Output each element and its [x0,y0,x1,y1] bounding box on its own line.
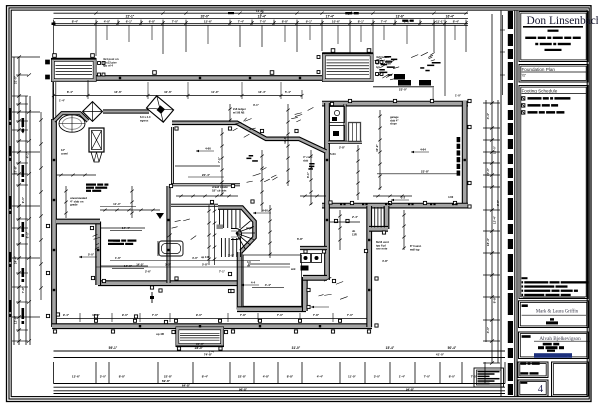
svg-text:12'-6": 12'-6" [14,315,18,324]
svg-text:11'-0": 11'-0" [211,90,219,94]
svg-text:2'-4": 2'-4" [352,215,359,219]
svg-text:8'-4": 8'-4" [72,20,79,24]
svg-text:7'-4": 7'-4" [238,20,245,24]
svg-text:50'-4": 50'-4" [448,346,457,350]
svg-text:8'-0": 8'-0" [449,374,456,378]
svg-text:9'-0": 9'-0" [122,313,129,317]
svg-text:7'-0": 7'-0" [347,313,354,317]
svg-text:18" clr min: 18" clr min [212,188,227,192]
svg-text:14'-0": 14'-0" [136,263,144,267]
svg-text:4: 4 [538,383,544,395]
svg-text:Foundation Plan: Foundation Plan [522,67,556,72]
svg-text:11'-0": 11'-0" [283,136,287,144]
svg-text:4'-4": 4'-4" [265,283,272,287]
svg-text:slope: slope [390,122,397,126]
svg-text:w/d: w/d [291,267,296,271]
svg-text:3'-2": 3'-2" [165,263,172,267]
svg-text:4'-8": 4'-8" [263,374,270,378]
svg-text:7'-8": 7'-8" [313,313,320,317]
svg-text:7'-8": 7'-8" [21,286,25,293]
svg-text:59'-1": 59'-1" [109,346,118,350]
svg-text:10'-0": 10'-0" [493,145,497,154]
svg-text:41'-0": 41'-0" [436,352,445,356]
svg-text:94'-8": 94'-8" [406,387,415,391]
svg-text:13'-6": 13'-6" [114,90,122,94]
svg-text:2'-6": 2'-6" [145,270,152,274]
svg-text:23'-0": 23'-0" [399,88,408,92]
svg-text:6'-0": 6'-0" [26,231,30,238]
svg-text:typ of 4: typ of 4 [103,64,113,68]
svg-text:10'-0": 10'-0" [486,167,490,176]
svg-text:13'-6": 13'-6" [396,15,405,19]
svg-text:w/ 5/8 AB: w/ 5/8 AB [233,110,245,114]
svg-text:13'-4": 13'-4" [258,15,267,19]
svg-text:6'-8": 6'-8" [297,237,304,241]
svg-text:7'-1": 7'-1" [219,270,226,274]
svg-text:5-64: 5-64 [330,152,336,156]
svg-text:16'-4": 16'-4" [486,237,490,246]
svg-text:7'-4": 7'-4" [209,350,216,354]
svg-text:4'-4": 4'-4" [317,374,324,378]
svg-text:lower: lower [113,239,120,243]
svg-text:22'-8": 22'-8" [164,374,173,378]
svg-text:see note: see note [376,247,388,251]
svg-text:8'-8": 8'-8" [287,374,294,378]
svg-text:Mark & Laura Griffin: Mark & Laura Griffin [536,310,579,315]
svg-text:2'-8": 2'-8" [339,146,346,150]
svg-text:4'-8": 4'-8" [382,259,389,263]
svg-text:9'-4": 9'-4" [63,313,70,317]
svg-text:7'-1": 7'-1" [217,156,221,163]
svg-text:96'-8": 96'-8" [239,387,248,391]
svg-text:dn: dn [247,263,251,267]
svg-text:23'-8": 23'-8" [421,169,430,173]
svg-text:10'-6": 10'-6" [332,20,341,24]
svg-text:4-60: 4-60 [262,209,268,213]
svg-text:4'-1": 4'-1" [26,151,30,158]
svg-text:4-60: 4-60 [448,195,454,199]
svg-text:1'-0": 1'-0" [455,94,462,98]
svg-text:1'-6": 1'-6" [115,256,122,260]
svg-text:up 4R: up 4R [156,332,164,336]
svg-text:24'-4": 24'-4" [14,255,18,264]
svg-text:8'-8": 8'-8" [119,374,126,378]
svg-text:3'-1": 3'-1" [253,103,260,107]
svg-text:12'-4": 12'-4" [493,215,497,224]
svg-text:4'-4": 4'-4" [486,112,490,119]
svg-text:9'-0": 9'-0" [21,196,25,203]
svg-text:Don Linsenbach: Don Linsenbach [527,15,598,27]
svg-text:5'-8": 5'-8" [202,263,209,267]
svg-text:3'-0": 3'-0" [496,199,500,206]
svg-text:8'-4": 8'-4" [453,20,460,24]
svg-text:7'-4": 7'-4" [381,20,388,24]
svg-text:13'-6": 13'-6" [72,374,81,378]
svg-text:4'-0": 4'-0" [486,326,490,333]
svg-text:6'-8": 6'-8" [149,20,156,24]
svg-text:¼": ¼" [522,74,527,78]
svg-text:22'-1": 22'-1" [126,15,135,19]
svg-text:8'-4": 8'-4" [202,374,209,378]
svg-text:16'-4": 16'-4" [446,15,455,19]
svg-text:7'-8": 7'-8" [240,313,247,317]
svg-text:7'-0": 7'-0" [172,20,179,24]
svg-text:1'-4": 1'-4" [399,374,406,378]
svg-text:8'-8": 8'-8" [282,20,289,24]
svg-text:17'-4": 17'-4" [326,15,335,19]
svg-text:31'-0": 31'-0" [14,75,18,84]
svg-text:11'-1": 11'-1" [436,20,445,24]
svg-text:4'-0": 4'-0" [192,256,199,260]
svg-text:9'-0": 9'-0" [196,313,203,317]
svg-text:9'-8": 9'-8" [493,296,497,303]
svg-text:typ: typ [376,65,380,69]
svg-text:6'-1": 6'-1" [126,20,133,24]
svg-text:Footing Schedule: Footing Schedule [522,88,558,93]
svg-text:11'-4": 11'-4" [113,202,121,206]
svg-text:7'-0": 7'-0" [277,313,284,317]
svg-text:3'-0": 3'-0" [374,374,381,378]
svg-text:20'-0": 20'-0" [201,15,210,19]
svg-text:20'-4": 20'-4" [202,173,211,177]
svg-text:4-4: 4-4 [251,281,256,285]
svg-text:wall typ: wall typ [410,247,420,251]
svg-text:crawl: crawl [61,151,68,155]
svg-text:13R: 13R [352,232,357,236]
svg-text:64'-8": 64'-8" [182,384,191,388]
svg-text:6'-1": 6'-1" [306,171,310,178]
svg-text:slab: slab [303,158,309,162]
svg-text:4-60: 4-60 [205,147,211,151]
svg-text:7'-0": 7'-0" [152,313,159,317]
svg-text:5'-4": 5'-4" [285,90,292,94]
svg-text:up 14R: up 14R [201,255,210,259]
svg-text:27'-8": 27'-8" [14,165,18,174]
svg-text:grade: grade [70,203,78,207]
svg-text:5'-0": 5'-0" [88,253,95,257]
svg-text:31'-0": 31'-0" [292,346,301,350]
svg-text:13'-4": 13'-4" [258,90,266,94]
svg-text:3'-0": 3'-0" [228,254,235,258]
svg-text:10'-6": 10'-6" [164,90,172,94]
svg-text:11'-0": 11'-0" [348,374,357,378]
svg-text:1'-4": 1'-4" [59,99,66,103]
svg-text:egress: egress [140,118,149,122]
svg-text:15'-6": 15'-6" [204,20,213,24]
svg-text:72'-8": 72'-8" [256,9,265,13]
svg-text:4'-0": 4'-0" [104,20,111,24]
svg-text:15'-4": 15'-4" [386,346,395,350]
svg-text:7'-0": 7'-0" [260,20,267,24]
svg-text:10'-2": 10'-2" [375,144,379,152]
svg-text:69'-8": 69'-8" [162,379,171,383]
svg-text:8'-4": 8'-4" [67,90,74,94]
svg-text:4-64: 4-64 [420,148,426,152]
svg-text:3'-0": 3'-0" [100,374,107,378]
svg-text:7'-0": 7'-0" [424,374,431,378]
svg-text:9'-1": 9'-1" [306,20,313,24]
svg-text:8'-1": 8'-1" [358,20,365,24]
svg-text:24'-0": 24'-0" [196,342,204,346]
svg-text:22'-8": 22'-8" [238,374,247,378]
